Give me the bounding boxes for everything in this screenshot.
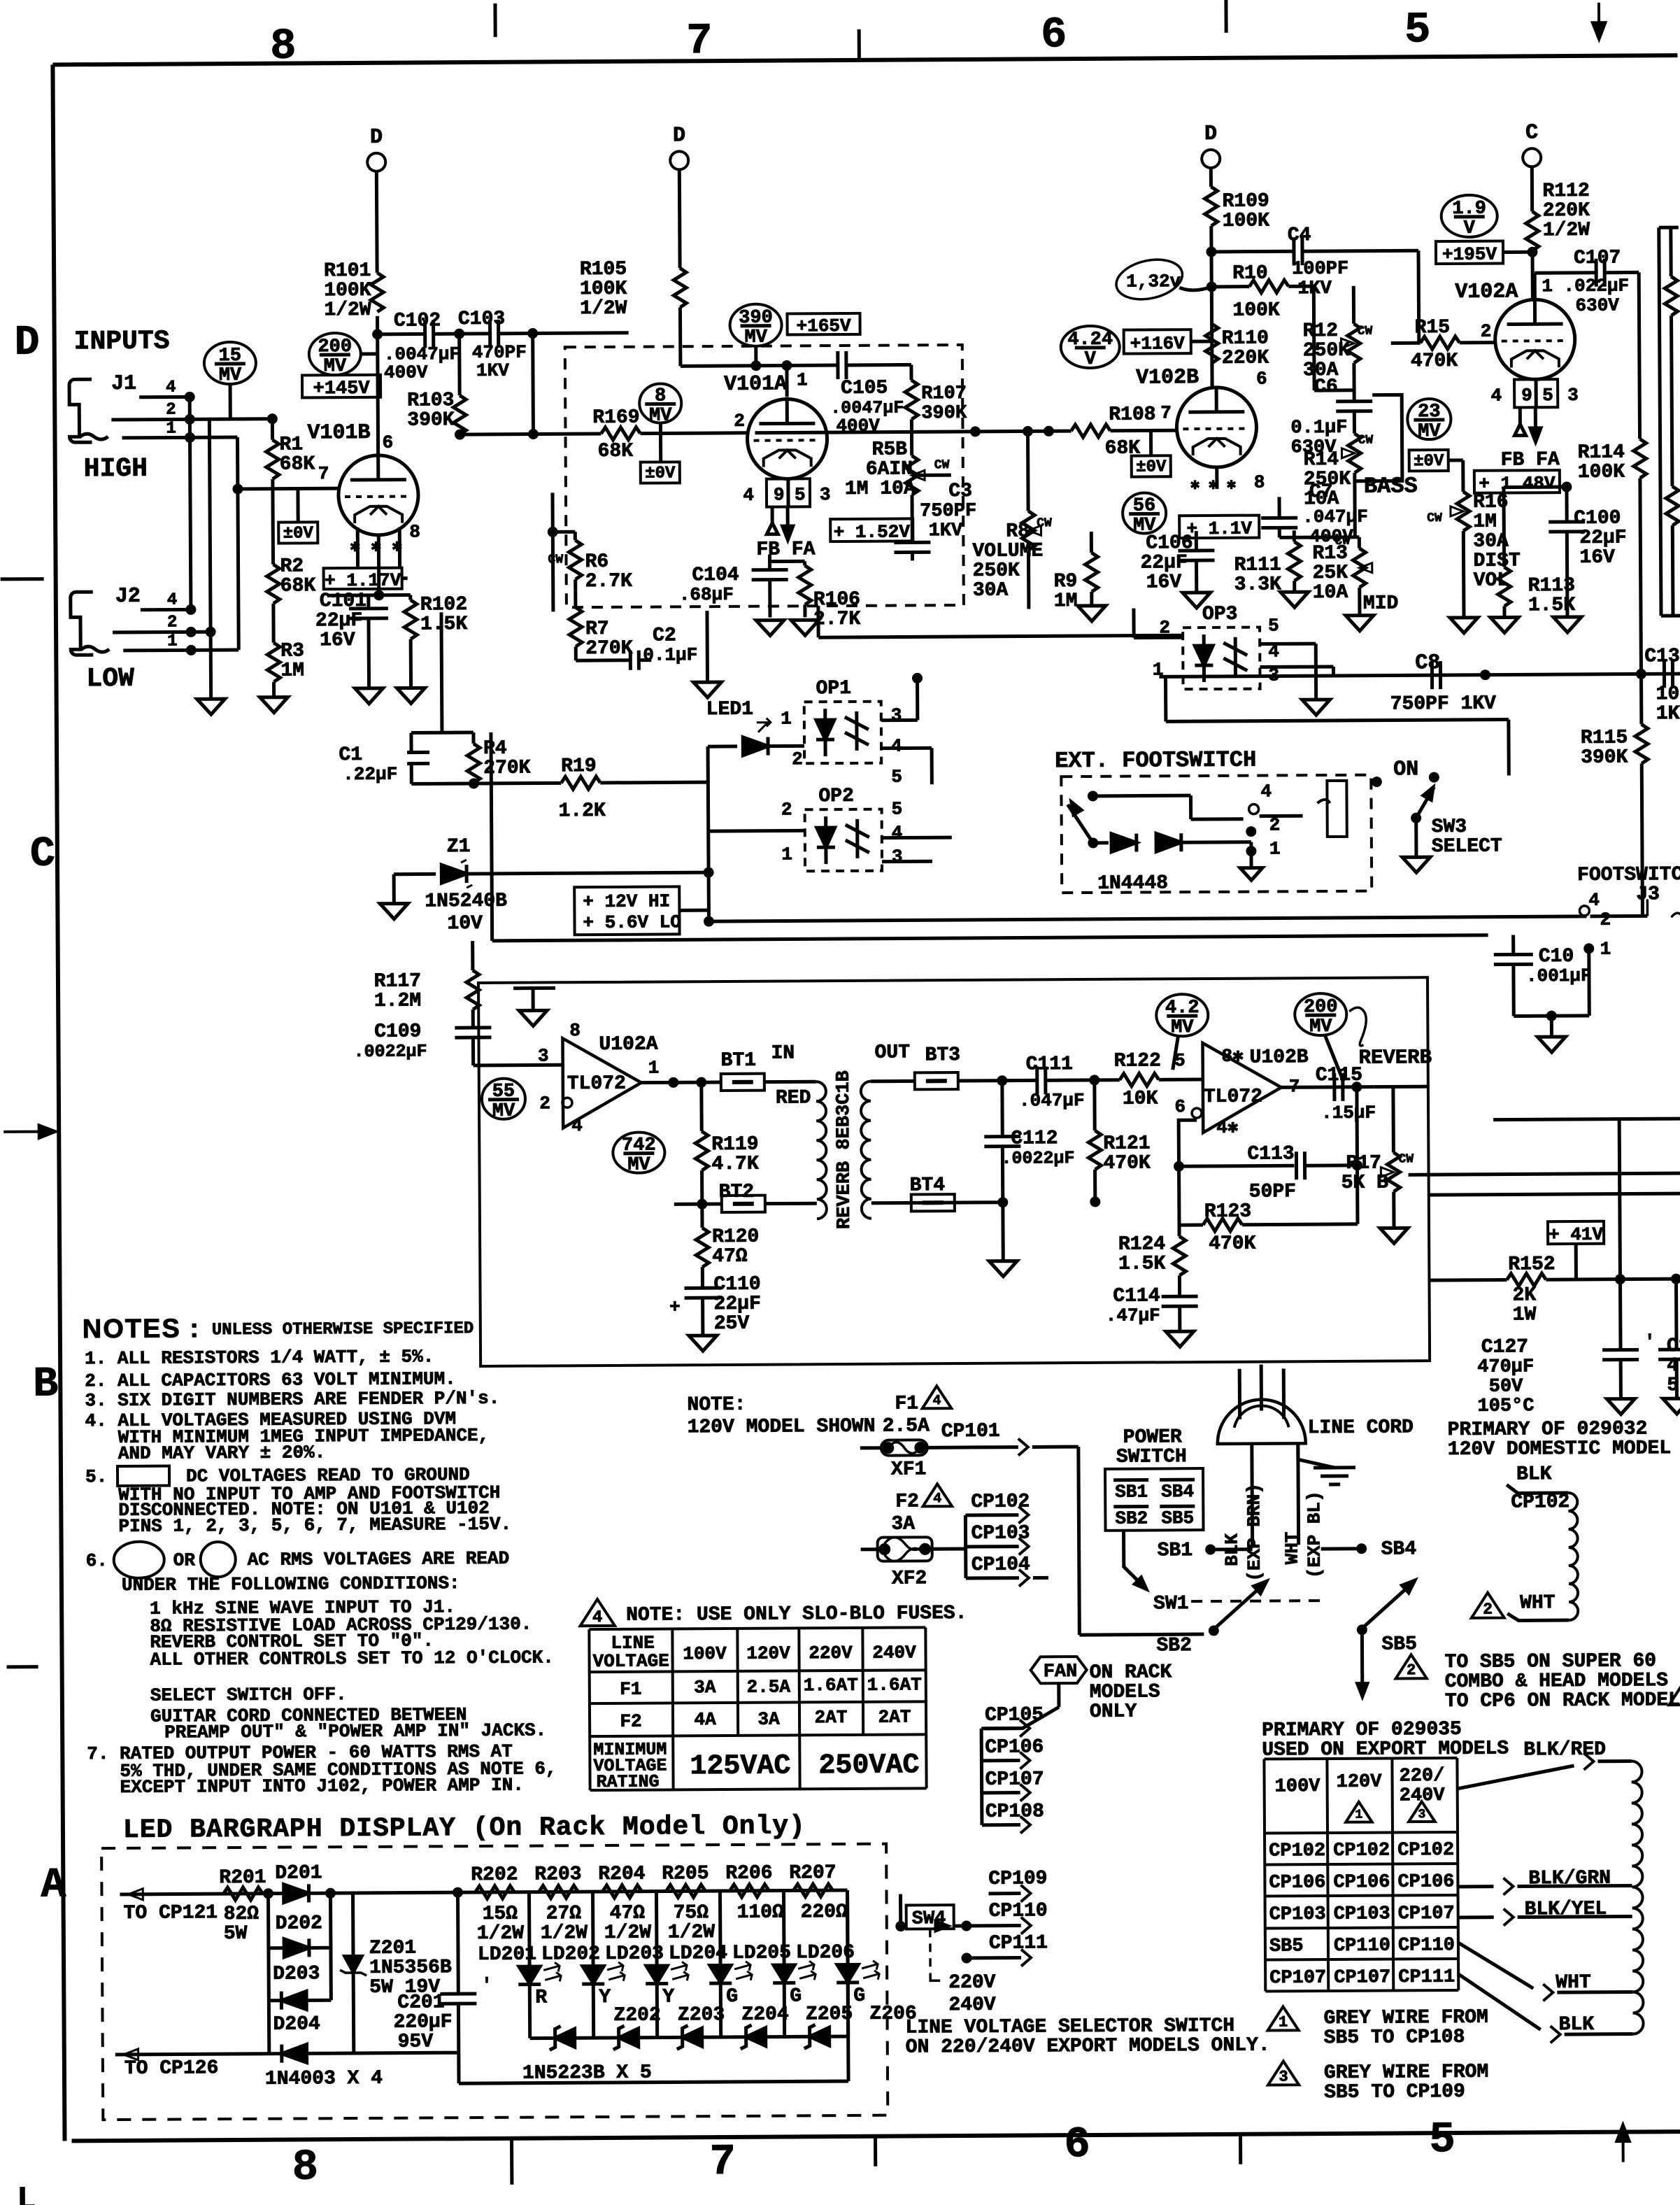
svg-text:±0V: ±0V xyxy=(283,524,314,543)
svg-text:9: 9 xyxy=(1521,385,1532,406)
svg-text:6: 6 xyxy=(382,432,393,453)
svg-text:CP102: CP102 xyxy=(1333,1841,1390,1862)
svg-text:2: 2 xyxy=(1600,909,1611,930)
svg-text:1.2K: 1.2K xyxy=(558,800,606,822)
svg-text:PINS 1, 2, 3, 5, 6, 7, MEASURE: PINS 1, 2, 3, 5, 6, 7, MEASURE -15V. xyxy=(118,1514,511,1537)
svg-text:5: 5 xyxy=(795,484,806,505)
svg-text:27Ω: 27Ω xyxy=(546,1903,582,1924)
svg-text:MV: MV xyxy=(744,327,767,348)
svg-text:1KV: 1KV xyxy=(929,520,964,541)
svg-text:CW: CW xyxy=(548,553,563,567)
svg-text:1. ALL RESISTORS 1/4 WATT, ± 5: 1. ALL RESISTORS 1/4 WATT, ± 5%. xyxy=(85,1346,434,1369)
svg-text:5.: 5. xyxy=(85,1466,107,1487)
svg-text:1/2W: 1/2W xyxy=(580,298,627,320)
svg-text:C102: C102 xyxy=(394,310,441,332)
svg-text:R2: R2 xyxy=(280,555,304,577)
svg-text:✱: ✱ xyxy=(1190,476,1200,494)
svg-text:R17: R17 xyxy=(1346,1153,1381,1175)
svg-text:1 .022µF: 1 .022µF xyxy=(1542,276,1629,297)
svg-text:1: 1 xyxy=(781,708,792,729)
svg-text:HIGH: HIGH xyxy=(84,454,148,485)
svg-text:+116V: +116V xyxy=(1130,333,1186,354)
svg-text:100K: 100K xyxy=(1578,462,1625,483)
svg-text:1: 1 xyxy=(1600,939,1611,960)
svg-text:5: 5 xyxy=(1667,1375,1679,1396)
svg-text:68K: 68K xyxy=(280,575,316,597)
svg-text:1/2W: 1/2W xyxy=(1543,220,1590,241)
svg-text:1/2W: 1/2W xyxy=(668,1922,716,1943)
svg-text:5W: 5W xyxy=(224,1923,248,1945)
svg-text:CW: CW xyxy=(1358,325,1373,339)
svg-text:SB4: SB4 xyxy=(1161,1481,1194,1502)
svg-text:1M: 1M xyxy=(1473,511,1497,533)
svg-text:Z203: Z203 xyxy=(678,2004,725,2026)
svg-text:TO CP126: TO CP126 xyxy=(124,2057,219,2080)
svg-text:R111: R111 xyxy=(1234,554,1281,576)
svg-text:.047µF: .047µF xyxy=(1019,1090,1085,1112)
svg-text:CW: CW xyxy=(1358,434,1373,448)
svg-text:OR: OR xyxy=(173,1550,196,1571)
svg-text:68K: 68K xyxy=(598,441,634,462)
svg-text:C110: C110 xyxy=(713,1274,760,1296)
svg-text:250VAC: 250VAC xyxy=(818,1750,919,1782)
svg-text:3: 3 xyxy=(1567,385,1579,406)
svg-text:U102A: U102A xyxy=(599,1034,657,1056)
svg-text:CP106: CP106 xyxy=(1269,1872,1325,1893)
svg-text:R123: R123 xyxy=(1204,1201,1251,1223)
svg-text:D203: D203 xyxy=(273,1963,320,1985)
svg-text:+: + xyxy=(669,1296,681,1317)
svg-text:MV: MV xyxy=(1171,1017,1194,1038)
svg-text:100K: 100K xyxy=(324,280,371,302)
svg-text:REVERB 8EB3C1B: REVERB 8EB3C1B xyxy=(834,1070,855,1229)
svg-text:4.7K: 4.7K xyxy=(711,1154,759,1175)
svg-text:BT4: BT4 xyxy=(910,1175,946,1196)
svg-text:F2: F2 xyxy=(895,1491,919,1512)
svg-text:LINE CORD: LINE CORD xyxy=(1308,1417,1414,1439)
svg-text:6: 6 xyxy=(1256,368,1267,389)
svg-text:CP108: CP108 xyxy=(985,1801,1044,1822)
svg-text:EXCEPT INPUT INTO J102, POWER: EXCEPT INPUT INTO J102, POWER AMP IN. xyxy=(120,1775,524,1798)
svg-text:MID: MID xyxy=(1363,593,1399,614)
svg-text:✱: ✱ xyxy=(1227,476,1236,494)
svg-text:SWITCH: SWITCH xyxy=(1116,1446,1187,1468)
svg-text:FB FA: FB FA xyxy=(756,539,815,560)
svg-text:D202: D202 xyxy=(276,1913,322,1934)
svg-text:630V: 630V xyxy=(1575,295,1619,316)
svg-text:22µF: 22µF xyxy=(1140,552,1187,574)
svg-text:.0022µF: .0022µF xyxy=(1001,1148,1074,1169)
svg-text:R1: R1 xyxy=(279,434,303,455)
svg-text:OP1: OP1 xyxy=(816,678,851,700)
svg-text:CP106: CP106 xyxy=(1397,1871,1454,1892)
svg-text:1: 1 xyxy=(167,632,178,651)
svg-text:G: G xyxy=(853,1985,865,2007)
svg-text:100: 100 xyxy=(1656,683,1680,705)
svg-text:4: 4 xyxy=(1490,385,1502,406)
svg-text:D: D xyxy=(673,124,685,148)
svg-text:4: 4 xyxy=(743,485,754,506)
svg-text:10A: 10A xyxy=(1313,582,1348,604)
svg-text:1: 1 xyxy=(1279,2013,1288,2031)
svg-text:F1: F1 xyxy=(895,1393,918,1415)
svg-text:.0022µF: .0022µF xyxy=(353,1041,427,1062)
svg-text:100K: 100K xyxy=(1232,299,1280,321)
svg-text:U102B: U102B xyxy=(1250,1047,1309,1068)
svg-text:8: 8 xyxy=(569,1020,581,1041)
svg-text:NOTE:: NOTE: xyxy=(687,1394,746,1416)
svg-text:R110: R110 xyxy=(1222,327,1269,349)
svg-text:50V: 50V xyxy=(1489,1376,1524,1397)
svg-text:R152: R152 xyxy=(1508,1254,1555,1275)
svg-text:MV: MV xyxy=(492,1101,515,1122)
svg-text:1.5K: 1.5K xyxy=(1528,595,1576,616)
svg-text:XF1: XF1 xyxy=(891,1459,927,1480)
svg-text:1: 1 xyxy=(166,419,176,438)
svg-text:C10: C10 xyxy=(1539,946,1574,967)
svg-text:CP107: CP107 xyxy=(1334,1967,1390,1988)
svg-text:SB5 TO CP108: SB5 TO CP108 xyxy=(1324,2027,1465,2049)
svg-text:2: 2 xyxy=(167,613,178,632)
svg-text:ON 220/240V EXPORT MODELS ONLY: ON 220/240V EXPORT MODELS ONLY. xyxy=(906,2035,1270,2059)
svg-text:1N4003 X 4: 1N4003 X 4 xyxy=(265,2068,383,2090)
svg-text:7: 7 xyxy=(318,463,329,484)
svg-text:D: D xyxy=(1204,122,1217,146)
svg-text:1M: 1M xyxy=(280,660,304,681)
svg-text:2.7K: 2.7K xyxy=(585,571,633,593)
svg-text:9: 9 xyxy=(774,484,785,505)
svg-text:1.2M: 1.2M xyxy=(374,990,421,1012)
svg-text:INPUTS: INPUTS xyxy=(74,327,170,357)
svg-text:5: 5 xyxy=(1542,385,1553,406)
svg-text:470K: 470K xyxy=(1411,350,1458,372)
svg-text:22µF: 22µF xyxy=(315,610,362,632)
svg-text:C13: C13 xyxy=(1644,646,1680,667)
svg-text:REVERB: REVERB xyxy=(1359,1046,1432,1070)
svg-text:4: 4 xyxy=(891,736,902,757)
svg-text:R112: R112 xyxy=(1542,180,1589,202)
svg-text:RATING: RATING xyxy=(596,1772,659,1793)
svg-text:(EXP BL): (EXP BL) xyxy=(1304,1491,1325,1578)
svg-text:10K: 10K xyxy=(1123,1088,1158,1109)
svg-text:CW: CW xyxy=(1037,516,1052,530)
svg-text:R10: R10 xyxy=(1232,262,1268,284)
svg-text:120V DOMESTIC MODEL: 120V DOMESTIC MODEL xyxy=(1448,1438,1671,1461)
svg-text:3A: 3A xyxy=(757,1709,780,1730)
svg-text:SB2: SB2 xyxy=(1156,1635,1192,1657)
svg-text:C1: C1 xyxy=(339,744,362,766)
svg-text:250K: 250K xyxy=(1303,340,1351,362)
svg-text:AC RMS VOLTAGES ARE READ: AC RMS VOLTAGES ARE READ xyxy=(248,1548,510,1571)
svg-text:ON: ON xyxy=(1393,758,1418,781)
svg-text:400V: 400V xyxy=(384,362,428,383)
svg-text:2AT: 2AT xyxy=(878,1706,911,1727)
svg-text:C111: C111 xyxy=(1026,1054,1073,1075)
svg-text:POWER: POWER xyxy=(1123,1426,1182,1448)
svg-text:(EXP BRN): (EXP BRN) xyxy=(1244,1483,1265,1582)
svg-text:SW3: SW3 xyxy=(1432,816,1467,838)
svg-text:3. SIX DIGIT NUMBERS ARE FENDE: 3. SIX DIGIT NUMBERS ARE FENDER P/N's. xyxy=(85,1388,499,1411)
svg-text:C105: C105 xyxy=(841,378,888,399)
svg-text:100V: 100V xyxy=(1275,1776,1321,1797)
svg-text:MV: MV xyxy=(1418,421,1441,442)
svg-text:125VAC: 125VAC xyxy=(690,1750,790,1782)
svg-text:L: L xyxy=(17,2182,36,2205)
svg-text:0.1µF: 0.1µF xyxy=(1290,418,1347,439)
svg-text:C104: C104 xyxy=(692,565,739,586)
svg-text:47: 47 xyxy=(1667,1355,1680,1377)
svg-text:3: 3 xyxy=(1279,2068,1288,2085)
svg-text:68K: 68K xyxy=(280,453,315,475)
svg-text:8✱: 8✱ xyxy=(1222,1046,1244,1067)
svg-text:2: 2 xyxy=(1483,1601,1493,1619)
svg-text:±0V: ±0V xyxy=(645,464,676,483)
svg-text:SB1: SB1 xyxy=(1115,1482,1148,1503)
svg-text:47Ω: 47Ω xyxy=(610,1903,646,1924)
svg-text:CP107: CP107 xyxy=(1398,1903,1455,1924)
svg-text:Z204: Z204 xyxy=(741,2004,788,2025)
svg-text:SW1: SW1 xyxy=(1153,1593,1189,1615)
svg-text:R207: R207 xyxy=(789,1862,836,1884)
svg-text:5: 5 xyxy=(1404,5,1431,55)
svg-text:16V: 16V xyxy=(320,630,355,651)
svg-text:.68µF: .68µF xyxy=(679,584,734,605)
svg-text:C115: C115 xyxy=(1316,1065,1362,1086)
svg-text:8: 8 xyxy=(270,21,297,71)
svg-text:+195V: +195V xyxy=(1442,244,1497,265)
svg-text:C3: C3 xyxy=(948,481,972,502)
svg-text:C4: C4 xyxy=(1288,225,1311,246)
svg-text:R113: R113 xyxy=(1528,575,1575,597)
svg-text:+ 41V: + 41V xyxy=(1549,1224,1604,1245)
svg-text:R107: R107 xyxy=(921,383,967,404)
svg-text:SB1: SB1 xyxy=(1158,1540,1193,1561)
svg-text:1KV: 1KV xyxy=(1656,703,1680,725)
svg-text:IN: IN xyxy=(771,1042,795,1064)
svg-text:VOLTAGE: VOLTAGE xyxy=(592,1650,669,1672)
svg-text:Z205: Z205 xyxy=(806,2004,853,2025)
svg-text:25K: 25K xyxy=(1313,562,1348,584)
svg-text:TL072: TL072 xyxy=(1204,1086,1262,1108)
svg-text:C114: C114 xyxy=(1113,1285,1160,1307)
svg-text:470K: 470K xyxy=(1209,1233,1256,1255)
svg-text:FOOTSWITCH: FOOTSWITCH xyxy=(1577,864,1680,886)
svg-text:B: B xyxy=(33,1361,58,1408)
svg-text:D204: D204 xyxy=(273,2013,320,2035)
svg-text:UNLESS OTHERWISE SPECIFIED: UNLESS OTHERWISE SPECIFIED xyxy=(212,1319,474,1340)
svg-text:CP103: CP103 xyxy=(1269,1904,1326,1925)
svg-text:V102A: V102A xyxy=(1455,280,1518,304)
svg-text:J1: J1 xyxy=(111,372,136,396)
svg-text:V101A: V101A xyxy=(724,372,787,397)
svg-text:C7: C7 xyxy=(1309,481,1333,503)
svg-text:3A: 3A xyxy=(891,1513,915,1535)
svg-text:F2: F2 xyxy=(620,1711,641,1732)
svg-text:3: 3 xyxy=(891,705,902,726)
svg-text:C109: C109 xyxy=(374,1021,421,1042)
svg-text:OUT: OUT xyxy=(874,1042,910,1063)
svg-text:MV: MV xyxy=(219,365,242,386)
svg-text:25V: 25V xyxy=(714,1313,750,1335)
svg-text:3A: 3A xyxy=(694,1677,716,1698)
svg-text:+ 12V HI: + 12V HI xyxy=(583,891,670,912)
svg-text:R14: R14 xyxy=(1304,449,1339,471)
svg-text:': ' xyxy=(1644,1331,1656,1352)
svg-text:MV: MV xyxy=(627,1155,650,1176)
svg-text:7: 7 xyxy=(686,16,713,66)
svg-text:2: 2 xyxy=(1269,814,1281,835)
svg-text:R106: R106 xyxy=(813,589,860,611)
svg-text:16V: 16V xyxy=(1579,547,1615,569)
svg-text:D: D xyxy=(370,126,383,150)
svg-text:': ' xyxy=(481,1975,492,1996)
svg-text:Z202: Z202 xyxy=(613,2005,660,2027)
svg-text:2: 2 xyxy=(1481,321,1492,342)
svg-text:390K: 390K xyxy=(921,403,967,424)
svg-text:7: 7 xyxy=(1160,402,1172,423)
svg-text:100PF: 100PF xyxy=(1292,259,1348,280)
svg-text:10V: 10V xyxy=(447,913,483,935)
svg-text:240V: 240V xyxy=(948,1994,996,2016)
svg-text:1: 1 xyxy=(781,844,792,865)
svg-text:C100: C100 xyxy=(1574,508,1621,530)
svg-text:5: 5 xyxy=(1429,2115,1455,2164)
svg-text:MODELS: MODELS xyxy=(1090,1681,1160,1703)
svg-text:100V: 100V xyxy=(683,1643,727,1664)
svg-text:SB5: SB5 xyxy=(1381,1633,1417,1655)
svg-text:OP3: OP3 xyxy=(1202,604,1238,625)
svg-text:1M 10A: 1M 10A xyxy=(845,478,916,500)
svg-text:750PF 1KV: 750PF 1KV xyxy=(1390,693,1497,716)
svg-text:4A: 4A xyxy=(694,1709,716,1730)
svg-text:7: 7 xyxy=(710,2137,736,2187)
svg-text:Z201: Z201 xyxy=(369,1938,416,1959)
svg-text:R105: R105 xyxy=(580,259,627,281)
svg-text:470K: 470K xyxy=(1103,1152,1151,1174)
svg-text:8: 8 xyxy=(409,521,420,542)
svg-text:LED1: LED1 xyxy=(706,699,753,721)
svg-text:5: 5 xyxy=(891,767,902,788)
svg-text:CP110: CP110 xyxy=(1334,1936,1390,1957)
svg-text:1: 1 xyxy=(648,1058,660,1079)
svg-text:J2: J2 xyxy=(115,585,141,609)
svg-text:R5B: R5B xyxy=(872,439,908,460)
svg-text:R206: R206 xyxy=(725,1863,772,1885)
svg-text:220V: 220V xyxy=(809,1643,853,1664)
svg-text:4: 4 xyxy=(932,1393,941,1409)
svg-text:2: 2 xyxy=(1407,1661,1416,1679)
svg-text:220/: 220/ xyxy=(1399,1766,1444,1787)
svg-text:220V: 220V xyxy=(948,1972,996,1994)
svg-text:OP2: OP2 xyxy=(818,786,854,807)
svg-text:R109: R109 xyxy=(1222,190,1269,212)
svg-text:270K: 270K xyxy=(585,638,633,660)
svg-text:RED: RED xyxy=(776,1087,811,1109)
svg-text:1: 1 xyxy=(1269,838,1281,859)
svg-text:240V: 240V xyxy=(872,1642,916,1663)
svg-text:390K: 390K xyxy=(1581,747,1628,769)
svg-text:.15µF: .15µF xyxy=(1321,1102,1376,1123)
svg-text:R122: R122 xyxy=(1114,1050,1161,1072)
svg-text:SB2: SB2 xyxy=(1115,1508,1148,1529)
svg-text:LOW: LOW xyxy=(86,664,134,694)
svg-text:EXT. FOOTSWITCH: EXT. FOOTSWITCH xyxy=(1055,747,1256,774)
svg-text:2.5A: 2.5A xyxy=(747,1676,791,1697)
svg-text:CP111: CP111 xyxy=(989,1932,1048,1954)
svg-text:MV: MV xyxy=(1309,1016,1332,1037)
svg-text:R19: R19 xyxy=(561,756,597,777)
svg-text:+ 5.6V LO: + 5.6V LO xyxy=(583,912,681,933)
svg-text:6: 6 xyxy=(1174,1096,1186,1117)
svg-text:G: G xyxy=(790,1985,802,2007)
svg-text:1/2W: 1/2W xyxy=(541,1922,588,1944)
svg-text:2: 2 xyxy=(539,1093,550,1114)
svg-text:D201: D201 xyxy=(275,1862,322,1884)
svg-text:0.1µF: 0.1µF xyxy=(643,644,697,665)
svg-text:CP103: CP103 xyxy=(971,1522,1030,1544)
svg-text:BT2: BT2 xyxy=(719,1182,755,1203)
svg-text:1N4448: 1N4448 xyxy=(1097,872,1168,895)
svg-text:CP107: CP107 xyxy=(1269,1968,1326,1989)
svg-text:CP111: CP111 xyxy=(1398,1967,1455,1988)
svg-text:R103: R103 xyxy=(407,390,454,411)
svg-text:CP110: CP110 xyxy=(989,1900,1048,1922)
svg-text:Y: Y xyxy=(662,1986,674,2008)
svg-text:R15: R15 xyxy=(1415,317,1451,339)
svg-text:C8: C8 xyxy=(1415,651,1440,675)
svg-text:6: 6 xyxy=(1064,2120,1090,2169)
svg-text:CP105: CP105 xyxy=(985,1704,1044,1726)
svg-text:4: 4 xyxy=(166,378,176,397)
svg-text:6: 6 xyxy=(1041,10,1067,59)
svg-text:CP102: CP102 xyxy=(1511,1491,1569,1513)
svg-text:+145V: +145V xyxy=(313,378,371,399)
svg-text:4: 4 xyxy=(933,1491,941,1507)
svg-text:SB5: SB5 xyxy=(1269,1936,1304,1957)
svg-text:CP107: CP107 xyxy=(985,1768,1044,1790)
svg-text:1/2W: 1/2W xyxy=(324,299,371,321)
svg-text:4: 4 xyxy=(1260,781,1272,802)
svg-text:R12: R12 xyxy=(1303,320,1339,342)
svg-text:3: 3 xyxy=(820,484,831,505)
svg-text:R203: R203 xyxy=(534,1864,581,1885)
svg-text:.47µF: .47µF xyxy=(1106,1305,1160,1326)
svg-text:1KV: 1KV xyxy=(476,360,509,381)
svg-text:TO CP121: TO CP121 xyxy=(124,1902,218,1924)
svg-text:FB FA: FB FA xyxy=(1501,449,1560,471)
svg-text:SB4: SB4 xyxy=(1381,1538,1417,1560)
svg-text:1/2W: 1/2W xyxy=(604,1922,652,1944)
svg-text:3: 3 xyxy=(538,1045,549,1066)
svg-text:F1: F1 xyxy=(620,1679,641,1700)
svg-text:3: 3 xyxy=(892,846,903,867)
svg-text:CP102: CP102 xyxy=(1397,1840,1454,1861)
svg-text:R205: R205 xyxy=(662,1863,709,1885)
svg-text:C201: C201 xyxy=(397,1992,444,2013)
svg-text:C127: C127 xyxy=(1481,1336,1528,1358)
svg-text:R7: R7 xyxy=(585,618,609,640)
svg-text:CW: CW xyxy=(934,458,950,472)
svg-text:CP103: CP103 xyxy=(1334,1903,1390,1924)
svg-text:1.5K: 1.5K xyxy=(1118,1253,1166,1275)
svg-text:22µF: 22µF xyxy=(1579,527,1626,549)
svg-text:R124: R124 xyxy=(1118,1233,1165,1255)
svg-text:R120: R120 xyxy=(712,1226,759,1248)
svg-text:V101B: V101B xyxy=(307,421,370,446)
svg-text:120V: 120V xyxy=(1337,1772,1383,1793)
svg-text:1N5240B: 1N5240B xyxy=(425,891,507,913)
svg-text:G: G xyxy=(726,1986,738,2008)
